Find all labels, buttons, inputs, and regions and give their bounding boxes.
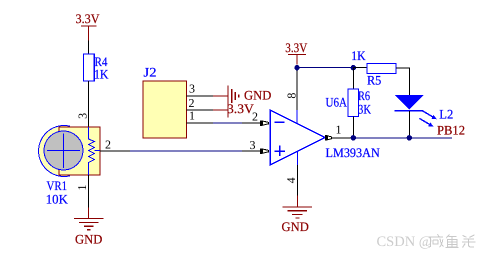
svg-text:3.3V: 3.3V — [76, 11, 101, 26]
junction node B — [351, 65, 356, 70]
svg-text:3: 3 — [75, 113, 89, 119]
pin clip (output 1) — [326, 135, 332, 140]
ground (op-amp pin 4) — [282, 196, 313, 234]
svg-text:3: 3 — [250, 138, 256, 152]
wire: 3.3V to R4 — [88, 41, 90, 55]
wire: VR1 pin 1 to GND — [88, 175, 90, 207]
wire: R6 to output node — [352, 117, 354, 138]
svg-text:2: 2 — [105, 138, 111, 152]
wire: node B to R5 — [353, 67, 367, 69]
svg-text:3K: 3K — [358, 102, 371, 117]
resistor R4 — [84, 54, 110, 81]
wire: 3.3V rail to op-amp pin 8 — [296, 70, 298, 110]
svg-text:1K: 1K — [94, 66, 109, 81]
svg-text:J2: J2 — [144, 65, 157, 80]
svg-text:U6A: U6A — [326, 95, 348, 110]
wire: node A to node B — [297, 67, 353, 69]
wire: J2 pin 3 — [187, 95, 214, 97]
wire: R4 to VR1 pin 3 — [88, 81, 90, 127]
svg-text:GND: GND — [244, 87, 271, 102]
svg-text:1: 1 — [336, 122, 342, 136]
wire: LED to output wire — [408, 111, 410, 138]
wire — [242, 150, 261, 152]
ground (below VR1) — [74, 207, 104, 246]
svg-text:1K: 1K — [351, 48, 366, 63]
power port 3.3V (right) — [285, 40, 308, 64]
pin clip (input 3) — [261, 148, 269, 154]
resistor R5 — [351, 48, 396, 88]
svg-text:R5: R5 — [367, 72, 381, 87]
power port 3.3V (J2 pin 2) — [227, 101, 254, 117]
svg-text:8: 8 — [284, 93, 298, 99]
wire — [242, 122, 261, 124]
junction node D — [407, 135, 412, 140]
power port 3.3V (left) — [76, 11, 101, 41]
svg-text:L2: L2 — [439, 106, 453, 121]
junction node C — [351, 135, 356, 140]
svg-text:1: 1 — [75, 185, 89, 191]
wire: J2 pin 1 to op-amp - input — [187, 122, 214, 124]
LED L2 — [395, 95, 454, 127]
svg-text:3.3V: 3.3V — [285, 40, 308, 55]
wire: J2 pin 2 — [187, 109, 214, 111]
resistor R6 — [348, 88, 371, 117]
connector J2 — [143, 65, 187, 138]
pin clip (input 2) — [261, 120, 269, 126]
wire: R5 to LED — [396, 68, 409, 95]
svg-text:GND: GND — [75, 231, 102, 246]
svg-text:CSDN @: CSDN @ — [377, 234, 433, 250]
potentiometer VR1 — [39, 126, 100, 207]
junction node A — [294, 65, 299, 70]
wire (blue segment) — [130, 150, 242, 152]
svg-text:LM393AN: LM393AN — [326, 145, 381, 160]
wire (blue segment) — [213, 122, 242, 124]
svg-text:4: 4 — [284, 177, 298, 183]
svg-text:GND: GND — [282, 219, 309, 234]
wire: VR1 pin 2 to op-amp + input — [100, 150, 130, 152]
svg-text:3: 3 — [189, 82, 195, 96]
op-amp U6A LM393AN — [270, 95, 380, 165]
wire: node B down to R6 — [352, 68, 354, 89]
svg-text:3.3V: 3.3V — [227, 101, 254, 116]
wire: output net PB12 — [353, 137, 452, 139]
ground (J2 pin 3, rotated) — [228, 86, 271, 107]
watermark chinese glyphs — [428, 234, 475, 247]
svg-text:10K: 10K — [46, 191, 69, 206]
svg-text:2: 2 — [252, 110, 258, 124]
svg-text:PB12: PB12 — [437, 122, 465, 137]
wire: output to node — [332, 137, 354, 139]
watermark CSDN — [377, 234, 433, 250]
op-amp pin 4 down — [297, 152, 299, 165]
